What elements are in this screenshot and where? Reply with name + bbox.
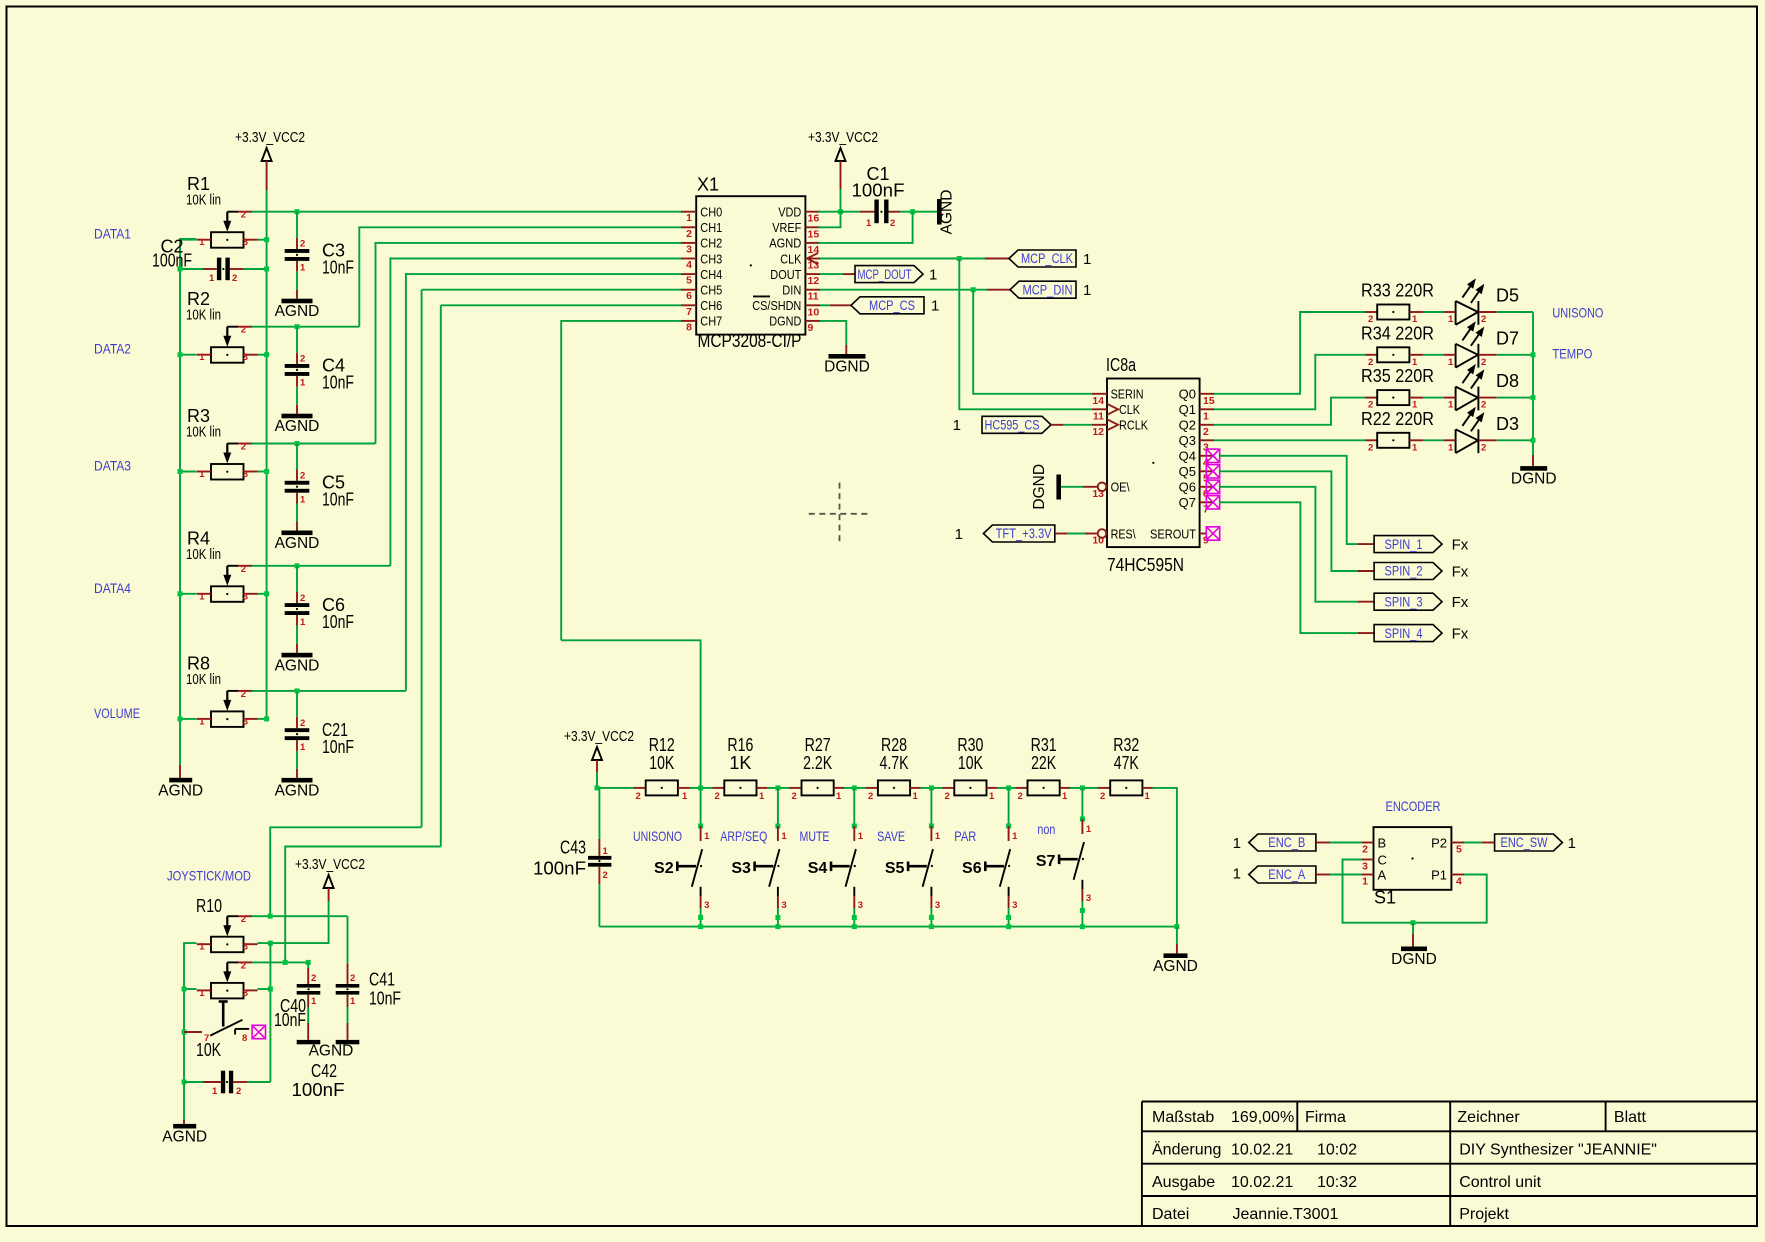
power +3.3V_VCC2 (joystick) (295, 857, 365, 901)
IC IC8a 74HC595N (1092, 355, 1215, 575)
svg-text:4: 4 (686, 259, 692, 271)
svg-text:10:32: 10:32 (1317, 1174, 1357, 1191)
svg-text:C43: C43 (560, 838, 586, 858)
wire Q0 to R33 (1214, 312, 1365, 394)
flag MCP_DIN (1010, 281, 1076, 298)
svg-text:1: 1 (1448, 357, 1454, 368)
switch S5 (877, 788, 941, 929)
wire pin1 row R8 (180, 718, 197, 720)
svg-text:2: 2 (241, 210, 246, 221)
svg-text:C42: C42 (311, 1061, 337, 1081)
ground AGND (switches) (1164, 953, 1188, 958)
svg-text:Control unit: Control unit (1459, 1174, 1541, 1191)
svg-text:1: 1 (1203, 410, 1209, 422)
capacitor C42 100nF (203, 1071, 270, 1097)
svg-text:10K lin: 10K lin (186, 308, 221, 324)
ground DGND (encoder) (1401, 947, 1427, 952)
svg-text:1: 1 (931, 298, 939, 315)
svg-text:10nF: 10nF (322, 373, 354, 393)
svg-text:R10: R10 (196, 896, 222, 916)
svg-text:1: 1 (209, 273, 215, 284)
svg-text:S2: S2 (654, 860, 674, 877)
svg-text:OE\: OE\ (1111, 480, 1130, 495)
svg-text:Fx: Fx (1452, 626, 1469, 643)
wire pin3 row R2 (258, 354, 267, 356)
no-connect (joystick button) (252, 1025, 265, 1038)
svg-text:1: 1 (311, 996, 317, 1007)
svg-text:HC595_CS: HC595_CS (985, 418, 1040, 433)
svg-text:1: 1 (682, 791, 688, 802)
svg-text:CH1: CH1 (700, 220, 722, 235)
svg-text:SPIN_4: SPIN_4 (1385, 626, 1423, 641)
svg-text:1: 1 (1448, 400, 1454, 411)
svg-text:CH0: CH0 (700, 205, 722, 220)
svg-text:JOYSTICK/MOD: JOYSTICK/MOD (167, 868, 251, 884)
svg-text:SPIN_1: SPIN_1 (1385, 537, 1423, 552)
svg-text:2: 2 (300, 239, 305, 250)
svg-text:2: 2 (241, 914, 246, 925)
ground DGND (LEDs) (1520, 466, 1547, 471)
svg-text:2: 2 (1100, 791, 1105, 802)
svg-text:1: 1 (1086, 824, 1092, 835)
capacitor C43 100nF (588, 788, 611, 927)
wire D7 cathode (1497, 354, 1533, 356)
svg-text:DGND: DGND (1511, 471, 1557, 488)
wire SEROUT stub (1200, 533, 1206, 535)
svg-text:100nF: 100nF (152, 251, 192, 271)
wire LED cathode bus (1532, 312, 1534, 455)
svg-text:47K: 47K (1114, 753, 1139, 773)
wire Q4 stub (1200, 455, 1214, 457)
sheet center mark (809, 483, 870, 545)
wire RCLK row (1051, 424, 1063, 426)
svg-text:VOLUME: VOLUME (94, 705, 140, 721)
svg-text:15: 15 (1203, 395, 1215, 407)
svg-text:R30: R30 (957, 735, 983, 755)
svg-text:1: 1 (1233, 835, 1241, 852)
wire Q4 to SPIN_1 (1220, 456, 1358, 544)
svg-text:CH4: CH4 (700, 267, 722, 282)
svg-text:Q6: Q6 (1179, 480, 1196, 495)
svg-text:16: 16 (808, 213, 820, 225)
svg-text:X1: X1 (697, 175, 719, 195)
flag MCP_CS (851, 297, 924, 314)
svg-text:10nF: 10nF (322, 258, 354, 278)
svg-text:1: 1 (759, 791, 765, 802)
svg-text:2: 2 (300, 471, 305, 482)
wire R35 to D8 (1423, 397, 1444, 399)
svg-text:1: 1 (1145, 791, 1151, 802)
svg-text:3: 3 (1086, 893, 1091, 904)
svg-text:10nF: 10nF (322, 737, 354, 757)
wire CH1 net (359, 227, 681, 326)
svg-text:+3.3V_VCC2: +3.3V_VCC2 (808, 130, 878, 146)
wire pin3 row R4 (258, 593, 267, 595)
wire wiper row R4 (252, 565, 390, 567)
wire CH3 net (390, 259, 681, 566)
wire DGND drop (encoder) (1412, 923, 1414, 934)
wire rail to AGND drop (1153, 788, 1177, 927)
wire DIN row (820, 289, 987, 291)
resistor R33 220R (1361, 281, 1434, 326)
switch 10K (joystick button) (182, 1001, 250, 1044)
LED D8 (1444, 364, 1519, 411)
wire Q6 to SPIN_3 (1220, 487, 1358, 602)
wire pin1 row R2 (180, 354, 197, 356)
wire wiper row R2 (252, 326, 359, 328)
svg-text:10K lin: 10K lin (186, 193, 221, 209)
ground AGND (C1) vertical (937, 199, 942, 225)
wire C42 row left (182, 1080, 187, 1085)
svg-text:1: 1 (836, 791, 842, 802)
svg-text:12: 12 (1092, 426, 1104, 438)
svg-text:2: 2 (311, 973, 316, 984)
wire CH7 net (561, 321, 681, 640)
svg-text:A: A (1378, 867, 1387, 882)
wire Q5 stub (1200, 470, 1214, 472)
wire R22 to D3 (1423, 439, 1444, 441)
svg-text:2: 2 (300, 718, 305, 729)
svg-text:10K lin: 10K lin (186, 672, 221, 688)
svg-text:22K: 22K (1031, 753, 1056, 773)
svg-text:UNISONO: UNISONO (1552, 305, 1603, 321)
wire Q7 stub (1200, 501, 1214, 503)
wire rail segments (690, 787, 713, 789)
resistor R31 22K (1016, 735, 1071, 802)
ground AGND (C6) (282, 653, 313, 658)
svg-text:R34 220R: R34 220R (1361, 323, 1434, 343)
wire ENC_B to B (1316, 842, 1330, 844)
svg-text:AGND: AGND (275, 418, 320, 435)
svg-text:S1: S1 (1374, 888, 1396, 908)
wire CH5 net (422, 289, 681, 291)
svg-text:AGND: AGND (275, 303, 320, 320)
svg-text:CH3: CH3 (700, 251, 722, 266)
resistor R34 220R (1361, 323, 1434, 368)
svg-text:12: 12 (808, 275, 820, 287)
LED D5 (1444, 278, 1519, 325)
LED D7 (1444, 321, 1519, 368)
power +3.3V_VCC2 (X1) (808, 130, 878, 189)
wire Q5 to SPIN_2 (1220, 471, 1358, 571)
svg-text:Q5: Q5 (1179, 464, 1196, 479)
wire R10a pin1 to AGND bus (184, 943, 197, 1120)
junction dots LED cathode bus (1531, 352, 1536, 357)
svg-text:R4: R4 (187, 528, 210, 548)
wire Q3 stub (1200, 439, 1214, 441)
svg-text:CH2: CH2 (700, 236, 722, 251)
svg-text:2: 2 (241, 960, 246, 971)
svg-text:3: 3 (243, 237, 248, 248)
svg-text:Q4: Q4 (1179, 449, 1196, 464)
svg-text:10nF: 10nF (322, 490, 354, 510)
svg-text:1: 1 (935, 831, 941, 842)
svg-text:RES\: RES\ (1111, 526, 1136, 541)
wire D3 cathode (1497, 439, 1533, 441)
wire P2 to ENC_SW (1451, 842, 1464, 844)
ground AGND (C41) (336, 1040, 360, 1044)
capacitor C41 10nF (336, 963, 360, 1040)
wire CLK net (959, 259, 1092, 410)
svg-text:R33 220R: R33 220R (1361, 281, 1434, 301)
svg-text:1: 1 (199, 352, 205, 363)
svg-text:1: 1 (913, 791, 919, 802)
wire VCC bus x266 (266, 190, 268, 719)
svg-text:8: 8 (686, 321, 692, 333)
svg-text:AGND: AGND (162, 1128, 207, 1145)
svg-text:1: 1 (199, 469, 205, 480)
svg-text:1: 1 (1083, 251, 1091, 268)
svg-text:SPIN_3: SPIN_3 (1385, 594, 1423, 609)
svg-text:R8: R8 (187, 653, 210, 673)
flag MCP_DOUT (855, 266, 923, 283)
wire VCC to R10 pin3 row (258, 901, 329, 943)
wire D8 cathode (1497, 397, 1533, 399)
wire ENC_A to A (1316, 874, 1330, 876)
svg-text:ENC_A: ENC_A (1268, 867, 1305, 882)
wire Q2 to R35 (1214, 398, 1365, 425)
flag MCP_CLK (1009, 250, 1076, 267)
wire pin3 row R1 (258, 239, 267, 241)
svg-text:D8: D8 (1496, 371, 1519, 391)
svg-text:R12: R12 (649, 735, 675, 755)
wire VDD row (818, 211, 860, 213)
svg-text:3: 3 (243, 591, 248, 602)
wire Q0 stub (1200, 393, 1214, 395)
svg-text:10: 10 (808, 306, 820, 318)
wire R10b wiper to C40 (307, 962, 309, 968)
wire D5 cathode (1497, 311, 1533, 313)
svg-text:3: 3 (1012, 900, 1017, 911)
wire joystick right bus (268, 941, 273, 946)
svg-text:3: 3 (243, 352, 248, 363)
svg-text:ENCODER: ENCODER (1386, 798, 1441, 814)
svg-text:AGND: AGND (939, 190, 956, 235)
svg-text:100nF: 100nF (292, 1080, 345, 1100)
wire Q7 to SPIN_4 (1220, 502, 1358, 633)
resistor R35 220R (1361, 366, 1434, 411)
wire CH6 link to joystick (285, 847, 441, 963)
wire CH5 link to joystick (270, 827, 421, 916)
wire DGND pin9 (820, 321, 846, 345)
svg-text:Blatt: Blatt (1614, 1109, 1647, 1126)
svg-text:1: 1 (929, 266, 937, 283)
resistor R30 10K (943, 735, 998, 802)
wire to C41 (347, 916, 349, 963)
svg-text:VDD: VDD (778, 205, 801, 220)
svg-text:10:02: 10:02 (1317, 1142, 1357, 1159)
svg-text:Zeichner: Zeichner (1457, 1109, 1520, 1126)
svg-text:Ausgabe: Ausgabe (1152, 1174, 1215, 1191)
svg-text:TFT_+3.3V: TFT_+3.3V (996, 526, 1052, 541)
svg-text:D3: D3 (1496, 414, 1519, 434)
svg-text:R27: R27 (805, 735, 831, 755)
svg-text:S7: S7 (1036, 853, 1056, 870)
svg-text:SPIN_2: SPIN_2 (1385, 564, 1423, 579)
svg-text:B: B (1378, 835, 1387, 850)
svg-text:CLK: CLK (780, 251, 801, 266)
svg-text:2: 2 (350, 973, 355, 984)
svg-text:2: 2 (1481, 357, 1486, 368)
svg-text:2: 2 (686, 228, 692, 240)
svg-text:3: 3 (243, 988, 248, 999)
svg-text:+3.3V_VCC2: +3.3V_VCC2 (564, 729, 634, 745)
wire CS row (820, 304, 830, 306)
wire Q1 to R34 (1214, 355, 1365, 410)
svg-text:2: 2 (1362, 844, 1368, 856)
svg-text:1: 1 (1062, 791, 1068, 802)
svg-text:S6: S6 (962, 860, 982, 877)
svg-text:2.2K: 2.2K (803, 753, 832, 773)
svg-text:DOUT: DOUT (770, 267, 801, 282)
svg-text:DGND: DGND (1031, 464, 1048, 510)
svg-text:1: 1 (989, 791, 995, 802)
svg-text:1: 1 (1568, 835, 1576, 852)
svg-text:MUTE: MUTE (800, 828, 830, 844)
wire R10a wiper row (252, 915, 348, 917)
svg-text:DATA3: DATA3 (94, 458, 131, 474)
resistor R27 2.2K (790, 735, 845, 802)
ground DGND (OE) vertical (1056, 475, 1061, 500)
svg-text:AGND: AGND (275, 657, 320, 674)
svg-text:+3.3V_VCC2: +3.3V_VCC2 (235, 130, 305, 146)
svg-text:DATA2: DATA2 (94, 341, 131, 357)
svg-text:1K: 1K (729, 753, 751, 773)
svg-text:14: 14 (1092, 395, 1104, 407)
wire Q2 stub (1200, 424, 1214, 426)
capacitor C21 10nF (285, 691, 310, 778)
wire VDD/VREF VCC (818, 189, 840, 227)
wire wiper row R8 (252, 690, 406, 692)
svg-text:2: 2 (792, 791, 797, 802)
svg-text:AGND: AGND (1153, 958, 1198, 975)
svg-text:1: 1 (300, 617, 306, 628)
svg-text:Maßstab: Maßstab (1152, 1109, 1214, 1126)
switch S4 (800, 788, 864, 929)
IC X1 MCP3208-CI/P (681, 175, 820, 352)
power +3.3V_VCC2 (pot column) (235, 130, 305, 190)
svg-text:100nF: 100nF (533, 859, 586, 879)
svg-text:MCP_CS: MCP_CS (869, 298, 915, 313)
svg-text:2: 2 (241, 325, 246, 336)
svg-text:Q0: Q0 (1179, 387, 1196, 402)
no-connect Q4 (1206, 449, 1219, 462)
wire CH2 net (376, 243, 682, 444)
svg-text:PAR: PAR (954, 828, 976, 844)
svg-text:2: 2 (1368, 442, 1373, 453)
svg-text:11: 11 (808, 291, 819, 303)
svg-text:1: 1 (1362, 876, 1368, 888)
svg-text:CH7: CH7 (700, 314, 722, 329)
ground AGND (C5) (282, 531, 313, 536)
potentiometer R8 (197, 689, 258, 728)
svg-text:10K lin: 10K lin (186, 547, 221, 563)
wire SERIN net (973, 290, 1092, 394)
svg-text:1: 1 (1012, 831, 1018, 842)
svg-text:8: 8 (242, 1033, 247, 1044)
svg-text:3: 3 (935, 900, 940, 911)
svg-text:D5: D5 (1496, 286, 1519, 306)
svg-text:Projekt: Projekt (1459, 1206, 1509, 1223)
svg-text:3: 3 (858, 900, 863, 911)
capacitor C2 100nF (178, 258, 270, 284)
svg-text:TEMPO: TEMPO (1552, 346, 1592, 362)
wire Q1 stub (1200, 408, 1214, 410)
flag SPIN_1 (1374, 536, 1442, 553)
resistor R12 10K (634, 735, 691, 802)
wire CH4 net (406, 274, 681, 691)
switch S6 (954, 788, 1018, 929)
svg-text:3: 3 (781, 900, 786, 911)
potentiometer R2 (197, 325, 258, 364)
svg-text:ENC_B: ENC_B (1268, 835, 1305, 850)
potentiometer R10b (197, 960, 258, 999)
svg-text:15: 15 (808, 228, 820, 240)
svg-text:10K: 10K (649, 753, 674, 773)
svg-text:2: 2 (603, 870, 608, 881)
svg-text:1: 1 (1083, 282, 1091, 299)
svg-text:CH5: CH5 (700, 283, 722, 298)
resistor R28 4.7K (866, 735, 921, 802)
svg-text:2: 2 (868, 791, 873, 802)
svg-text:4: 4 (1456, 876, 1462, 888)
potentiometer R3 (197, 442, 258, 481)
svg-text:2: 2 (636, 791, 641, 802)
no-connect SEROUT (1206, 527, 1219, 540)
svg-text:MCP3208-CI/P: MCP3208-CI/P (698, 331, 802, 351)
svg-text:2: 2 (1481, 442, 1486, 453)
svg-text:1: 1 (704, 831, 710, 842)
svg-text:2: 2 (945, 791, 950, 802)
svg-text:1: 1 (199, 942, 205, 953)
svg-text:CLK: CLK (1119, 402, 1140, 417)
svg-text:2: 2 (715, 791, 720, 802)
svg-text:R32: R32 (1113, 735, 1139, 755)
svg-text:RCLK: RCLK (1119, 418, 1148, 433)
wire wiper row R1 (252, 211, 681, 213)
svg-text:AGND: AGND (275, 535, 320, 552)
svg-text:DATA1: DATA1 (94, 226, 131, 242)
svg-text:9: 9 (808, 322, 814, 334)
capacitor C6 10nF (285, 566, 310, 653)
svg-text:74HC595N: 74HC595N (1107, 555, 1184, 575)
svg-text:D7: D7 (1496, 328, 1519, 348)
resistor R16 1K (713, 735, 768, 802)
svg-text:10K lin: 10K lin (186, 425, 221, 441)
svg-text:1: 1 (686, 212, 692, 224)
svg-text:3: 3 (243, 469, 248, 480)
potentiometer R4 (197, 564, 258, 603)
svg-text:5: 5 (1456, 844, 1462, 856)
svg-text:C41: C41 (369, 969, 395, 989)
svg-text:1: 1 (953, 417, 961, 434)
svg-text:1: 1 (350, 996, 356, 1007)
svg-text:1: 1 (199, 237, 205, 248)
wire switch bottom rail (599, 926, 1177, 928)
wire AGND bus x180 (180, 239, 197, 765)
svg-text:R16: R16 (727, 735, 753, 755)
ground AGND (pot column) (169, 778, 192, 783)
wire R34 to D7 (1423, 354, 1444, 356)
svg-text:Datei: Datei (1152, 1206, 1189, 1223)
svg-text:R22 220R: R22 220R (1361, 409, 1434, 429)
svg-text:2: 2 (890, 218, 895, 229)
ground AGND (C40) (297, 1040, 321, 1044)
svg-text:Q2: Q2 (1179, 418, 1196, 433)
svg-text:R2: R2 (187, 289, 210, 309)
svg-text:IC8a: IC8a (1106, 355, 1137, 375)
wire CH6 net (441, 304, 681, 306)
